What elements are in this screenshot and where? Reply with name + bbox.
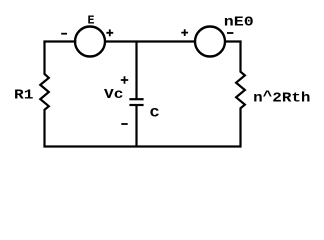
svg-text:R1: R1 [14,88,33,104]
svg-text:Vc: Vc [104,87,123,103]
svg-text:nE0: nE0 [224,15,254,30]
svg-text:n^2Rth: n^2Rth [253,90,310,107]
svg-text:E: E [88,15,95,28]
svg-text:C: C [150,107,160,121]
